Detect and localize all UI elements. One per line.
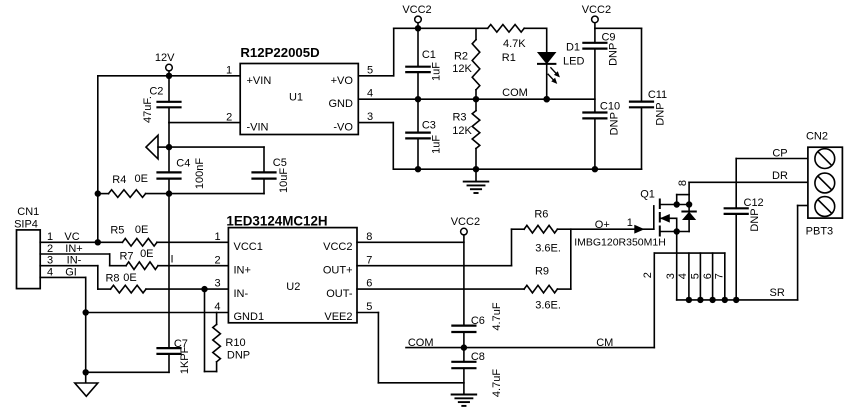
svg-text:47uF.: 47uF.: [142, 96, 154, 123]
svg-text:C6: C6: [471, 315, 485, 327]
svg-text:C9: C9: [601, 31, 615, 43]
svg-text:R7: R7: [119, 250, 133, 262]
svg-text:CM: CM: [596, 337, 613, 349]
svg-text:7: 7: [366, 254, 372, 266]
svg-text:R6: R6: [534, 209, 548, 221]
svg-text:4.7K: 4.7K: [503, 38, 526, 50]
svg-text:1uF: 1uF: [431, 62, 443, 81]
svg-text:C11: C11: [648, 89, 667, 101]
svg-text:U1: U1: [289, 92, 303, 104]
svg-text:VCC2: VCC2: [323, 241, 352, 253]
svg-text:R8: R8: [105, 273, 119, 285]
svg-text:IN+: IN+: [234, 264, 251, 276]
svg-text:C10: C10: [600, 101, 620, 113]
svg-text:OUT+: OUT+: [323, 264, 353, 276]
svg-text:6: 6: [366, 278, 372, 290]
svg-text:IN-: IN-: [67, 255, 82, 267]
svg-text:0E: 0E: [134, 173, 147, 185]
svg-text:1: 1: [226, 65, 232, 77]
svg-text:CN1: CN1: [17, 206, 39, 218]
svg-text:3: 3: [214, 278, 220, 290]
svg-text:PBT3: PBT3: [806, 226, 834, 238]
svg-text:SR: SR: [770, 287, 785, 299]
svg-text:GND1: GND1: [234, 311, 265, 323]
svg-text:C12: C12: [744, 197, 764, 209]
svg-text:2: 2: [47, 243, 53, 255]
svg-text:OUT-: OUT-: [326, 288, 353, 300]
svg-text:VEE2: VEE2: [324, 311, 352, 323]
svg-text:DNP: DNP: [608, 112, 620, 135]
svg-text:D1: D1: [566, 42, 580, 54]
svg-text:4: 4: [47, 266, 53, 278]
svg-text:8: 8: [366, 231, 372, 243]
svg-text:4: 4: [367, 88, 373, 100]
svg-text:3: 3: [47, 255, 53, 267]
svg-text:3.6E.: 3.6E.: [535, 242, 561, 254]
svg-text:+VIN: +VIN: [247, 75, 272, 87]
svg-text:DNP: DNP: [607, 43, 619, 66]
svg-text:C1: C1: [422, 49, 436, 61]
svg-text:12K: 12K: [452, 63, 472, 75]
svg-text:GI: GI: [65, 266, 77, 278]
svg-text:5: 5: [367, 64, 373, 76]
svg-text:3: 3: [665, 273, 677, 279]
svg-text:R5: R5: [110, 225, 124, 237]
svg-text:DNP: DNP: [654, 102, 666, 125]
svg-text:1KPF: 1KPF: [179, 346, 191, 374]
svg-text:VCC2: VCC2: [402, 4, 431, 16]
svg-text:LED: LED: [563, 55, 584, 67]
svg-text:4: 4: [214, 301, 220, 313]
svg-text:O+: O+: [595, 219, 610, 231]
svg-text:3.6E.: 3.6E.: [535, 300, 561, 312]
svg-text:U2: U2: [286, 281, 300, 293]
svg-text:DR: DR: [772, 170, 788, 182]
svg-text:DNP: DNP: [749, 208, 761, 231]
svg-text:4.7uF: 4.7uF: [491, 369, 503, 397]
svg-text:2: 2: [226, 111, 232, 123]
svg-text:0E: 0E: [135, 224, 148, 236]
svg-text:4.7uF: 4.7uF: [491, 302, 503, 330]
svg-text:I: I: [170, 254, 173, 266]
svg-text:IN+: IN+: [65, 243, 82, 255]
svg-text:4: 4: [677, 273, 689, 279]
svg-text:6: 6: [702, 273, 714, 279]
svg-text:8: 8: [677, 180, 689, 186]
svg-text:R1: R1: [502, 52, 516, 64]
svg-text:C8: C8: [471, 351, 485, 363]
svg-text:R3: R3: [452, 111, 466, 123]
svg-text:Q1: Q1: [640, 188, 655, 200]
svg-text:C5: C5: [273, 157, 287, 169]
svg-text:10uF: 10uF: [278, 168, 290, 193]
svg-text:IN-: IN-: [234, 288, 249, 300]
svg-text:VC: VC: [64, 231, 79, 243]
svg-text:1: 1: [214, 231, 220, 243]
svg-text:5: 5: [366, 301, 372, 313]
svg-text:COM: COM: [408, 337, 434, 349]
svg-text:2: 2: [642, 272, 654, 278]
svg-text:CN2: CN2: [806, 130, 828, 142]
svg-text:0E: 0E: [140, 248, 153, 260]
svg-text:CP: CP: [772, 148, 787, 160]
svg-text:IMBG120R350M1H: IMBG120R350M1H: [574, 237, 666, 249]
svg-text:12V: 12V: [155, 52, 175, 64]
svg-text:+VO: +VO: [331, 75, 354, 87]
svg-text:VCC1: VCC1: [234, 241, 263, 253]
svg-text:C4: C4: [176, 157, 190, 169]
svg-text:R10: R10: [225, 337, 245, 349]
svg-text:-VO: -VO: [333, 121, 353, 133]
svg-text:7: 7: [714, 273, 726, 279]
svg-text:DNP: DNP: [227, 349, 250, 361]
svg-text:1uF: 1uF: [431, 135, 443, 154]
svg-text:12K: 12K: [452, 125, 472, 137]
svg-text:3: 3: [367, 111, 373, 123]
svg-text:1: 1: [627, 217, 633, 229]
svg-text:C2: C2: [149, 85, 163, 97]
svg-text:R12P22005D: R12P22005D: [240, 45, 319, 60]
svg-text:C3: C3: [422, 120, 436, 132]
svg-text:VCC2: VCC2: [451, 216, 480, 228]
svg-text:SIP4: SIP4: [14, 218, 38, 230]
svg-text:COM: COM: [502, 87, 528, 99]
svg-text:R9: R9: [535, 265, 549, 277]
svg-text:5: 5: [690, 273, 702, 279]
svg-text:VCC2: VCC2: [582, 4, 611, 16]
svg-text:2: 2: [214, 254, 220, 266]
svg-text:R4: R4: [112, 174, 126, 186]
svg-text:GND: GND: [328, 98, 353, 110]
svg-text:1: 1: [47, 231, 53, 243]
svg-text:100nF: 100nF: [194, 158, 206, 189]
svg-text:0E: 0E: [123, 272, 136, 284]
svg-text:-VIN: -VIN: [247, 121, 269, 133]
svg-text:R2: R2: [454, 51, 468, 63]
svg-text:1ED3124MC12H: 1ED3124MC12H: [226, 213, 327, 228]
